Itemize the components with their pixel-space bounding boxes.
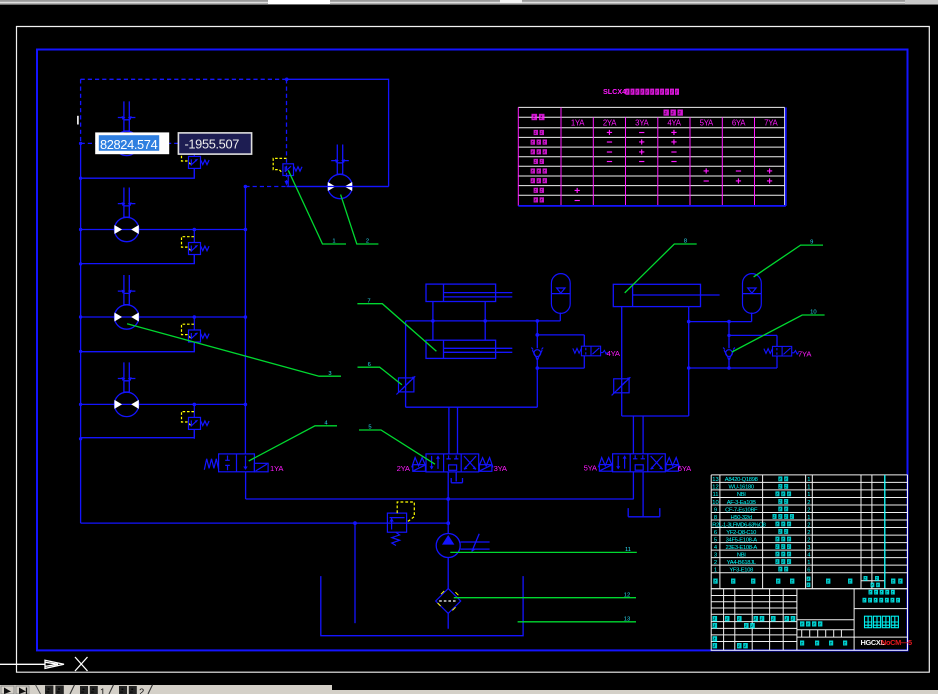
leader line item 3 [127, 324, 341, 377]
svg-text:R2L-1-3LFMD6-63%O8: R2L-1-3LFMD6-63%O8 [712, 522, 765, 528]
svg-text:1: 1 [807, 515, 810, 521]
svg-text:+: + [735, 175, 741, 187]
table header texts [532, 110, 779, 128]
filter F1 [436, 589, 461, 614]
leader line item 4 [249, 426, 337, 461]
svg-text:1: 1 [807, 477, 810, 483]
wire: V3 ports [633, 416, 643, 516]
BOM header row texts [713, 576, 902, 587]
wire: motor M4 supply line [81, 403, 246, 405]
svg-text:5: 5 [714, 537, 717, 543]
toolbar bottom strip [0, 0, 938, 5]
pilot valve V5 (7YA) [764, 346, 799, 356]
svg-text:5YA: 5YA [700, 119, 714, 128]
leader line item 9 [754, 245, 823, 277]
cylinder CY1 upper [426, 284, 512, 301]
relief valve RV4 [182, 404, 210, 438]
svg-text:SLCX4: SLCX4 [603, 87, 626, 96]
title block grid [711, 589, 907, 651]
svg-text:10: 10 [810, 310, 816, 316]
wire: supply line y321 [406, 320, 561, 322]
svg-text:1: 1 [714, 567, 717, 573]
svg-text:13: 13 [712, 477, 718, 483]
table row labels [531, 130, 547, 203]
svg-text:1: 1 [332, 239, 335, 245]
svg-text:AF-3-Ea10B: AF-3-Ea10B [727, 500, 756, 506]
tank T1 [321, 576, 523, 636]
svg-text:3: 3 [328, 371, 331, 377]
junction dot B1 bottom [536, 366, 540, 370]
motor M1 [114, 101, 138, 155]
tab labels [45, 685, 153, 694]
junction dots pump riser [353, 497, 450, 525]
motor M5 [328, 145, 352, 199]
relief valve RV3 [182, 317, 210, 351]
wire: motor M1 supply line (dashed) [81, 142, 246, 144]
svg-text:9: 9 [810, 240, 813, 246]
drain sump under V2 [451, 478, 462, 483]
svg-text:3: 3 [714, 552, 717, 558]
junction dots motor M1 row [79, 142, 247, 180]
svg-text:3YA: 3YA [494, 464, 508, 473]
svg-text:NoCM—5: NoCM—5 [881, 638, 912, 647]
motor M4 [114, 362, 138, 416]
svg-text:2: 2 [807, 530, 810, 536]
junction dots box B2 [687, 320, 731, 370]
svg-text:34F5-E108-A: 34F5-E108-A [726, 537, 758, 543]
leader line item 1 [288, 170, 346, 244]
svg-text:8: 8 [684, 239, 687, 245]
junction dots y321 [431, 319, 539, 323]
layout tab bar [0, 684, 938, 694]
svg-text:2: 2 [139, 687, 144, 694]
wire: AC1 stem [559, 313, 561, 321]
UCS icon [0, 657, 88, 671]
cylinder CY3 right [613, 284, 719, 306]
table: parts list BOM [711, 475, 907, 589]
leader line item 11 [450, 551, 637, 553]
solenoid valve V2 (2YA/3YA) 4/3 [412, 454, 493, 472]
wire: motor M3 supply line [81, 316, 246, 318]
relief valve RV2 [182, 230, 210, 264]
wire: pump riser x448 [447, 499, 449, 629]
svg-text:6: 6 [807, 567, 810, 573]
throttle valve TH2 [612, 377, 631, 395]
svg-text:1: 1 [807, 492, 810, 498]
wire: box B2 top link [689, 313, 777, 368]
svg-text:23E3-E108-A: 23E3-E108-A [725, 545, 757, 551]
svg-text:WU-16180: WU-16180 [729, 485, 754, 491]
leader line item 8 [625, 244, 697, 293]
svg-text:YF3-E108: YF3-E108 [729, 567, 753, 573]
wire: main supply line to manifold [81, 522, 449, 524]
junction dot dashed corner [244, 78, 289, 189]
wire: relief return into tank [354, 523, 356, 623]
junction dots motor M4 row [79, 403, 247, 441]
wire: motor M1 return line [81, 168, 195, 178]
svg-text:2: 2 [807, 537, 810, 543]
table plus minus marks [574, 127, 773, 207]
solenoid valve V3 (5YA/6YA) 4/3 [598, 454, 679, 472]
dynamic input box Y value [178, 133, 251, 154]
wire: suction header dashed top [81, 79, 287, 143]
svg-text:6: 6 [368, 362, 371, 368]
svg-text:6YA: 6YA [732, 119, 746, 128]
wire: A-line left drop [406, 321, 538, 407]
svg-text:11: 11 [712, 492, 718, 498]
svg-text:6YA: 6YA [678, 464, 692, 473]
leader line item 13 [518, 621, 636, 623]
relief valve RV1 [182, 143, 210, 177]
svg-text:NBI: NBI [737, 492, 746, 498]
svg-text:7YA: 7YA [798, 349, 812, 358]
svg-text:7: 7 [367, 298, 370, 304]
svg-text:2YA: 2YA [397, 464, 411, 473]
svg-text:12: 12 [712, 485, 718, 491]
svg-text:3: 3 [807, 545, 810, 551]
svg-text:4YA: 4YA [607, 349, 621, 358]
svg-text:7YA: 7YA [764, 119, 778, 128]
svg-text:-1955.507: -1955.507 [185, 137, 240, 152]
pilot valve V4 (4YA) [573, 346, 608, 356]
drawing number HGCXL NoCM-5 [861, 638, 912, 647]
crosshair cursor tick [77, 116, 79, 125]
junction dots motor M3 row [79, 315, 247, 353]
wire: left manifold vertical bus [80, 143, 82, 523]
check valve CK1 [531, 348, 543, 362]
leader line item 7 [357, 304, 436, 352]
wire: motor M2 return line [81, 255, 195, 264]
svg-text:CF-7-Es10BF: CF-7-Es10BF [725, 507, 758, 513]
svg-text:12: 12 [624, 592, 630, 598]
svg-text:11: 11 [625, 547, 631, 553]
leader line item 5 [359, 430, 435, 464]
svg-text:H50-32/d: H50-32/d [730, 515, 752, 521]
svg-text:2: 2 [366, 239, 369, 245]
wire: motor M3 return line [81, 342, 195, 352]
throttle valve TH1 [396, 376, 415, 394]
wire: return bus x245 [245, 187, 633, 500]
wire: CY3 left drop through throttle [622, 307, 689, 416]
pump P1 main [436, 534, 489, 558]
wire: pump unit 5 enclosure [287, 79, 389, 186]
svg-text:8: 8 [714, 515, 717, 521]
svg-text:+: + [766, 175, 772, 187]
motor M3 [114, 275, 138, 329]
svg-text:2: 2 [807, 507, 810, 513]
svg-text:2: 2 [714, 560, 717, 566]
wire: dashed pilot link to pump unit 5 [245, 79, 286, 186]
leader line item 6 [358, 367, 402, 385]
svg-text:−: − [639, 156, 645, 168]
svg-text:9: 9 [714, 507, 717, 513]
svg-text:6: 6 [714, 530, 717, 536]
leader line item 10 [732, 315, 825, 352]
solenoid valve V1 (1YA) 2/2 [204, 454, 268, 472]
junction dots motor M2 row [79, 228, 247, 266]
wire: V2 ports [448, 407, 457, 499]
wire: motor M5 supply [287, 186, 389, 188]
title block texts [713, 590, 901, 649]
drain sump under V3 [628, 508, 660, 517]
relief valve RV5 [273, 158, 302, 186]
svg-text:1YA: 1YA [571, 119, 585, 128]
wire: check box B1 [537, 321, 584, 407]
svg-text:5: 5 [368, 425, 371, 431]
wire: cylinder frame verticals [433, 302, 485, 341]
wire: CY3 right drop [688, 307, 690, 416]
svg-text:82824.574: 82824.574 [100, 137, 158, 152]
motor M2 [114, 188, 138, 242]
svg-text:13: 13 [624, 616, 630, 622]
check valve CK2 [723, 348, 735, 362]
svg-text:−: − [574, 195, 580, 207]
wire: motor M2 supply line [81, 229, 246, 231]
svg-text:10: 10 [712, 500, 718, 506]
svg-text:2: 2 [807, 500, 810, 506]
leader line item 12 [454, 597, 636, 599]
svg-text:2: 2 [807, 522, 810, 528]
relief valve RV6 main [387, 502, 414, 546]
table title SLCX4 [603, 87, 679, 96]
svg-text:NBI: NBI [737, 552, 746, 558]
svg-text:YA4-B618JL: YA4-B618JL [727, 560, 757, 566]
svg-text:1: 1 [100, 687, 105, 694]
table: solenoid action chart [518, 107, 786, 205]
svg-text:−: − [606, 156, 612, 168]
dynamic input box X value [95, 132, 169, 154]
svg-text:1: 1 [807, 485, 810, 491]
cyan revision line [884, 475, 886, 589]
accumulator AC1 [551, 274, 570, 314]
svg-text:A8420-Q1898: A8420-Q1898 [725, 477, 758, 483]
wire: motor M4 return line [81, 429, 195, 437]
accumulator AC2 [743, 274, 762, 314]
BOM row texts [712, 476, 811, 573]
svg-text:−: − [703, 175, 709, 187]
svg-text:1: 1 [807, 560, 810, 566]
svg-text:YF2-Q8-C10: YF2-Q8-C10 [726, 530, 756, 536]
leader line item 2 [341, 195, 379, 244]
cylinder CY2 lower [426, 340, 512, 358]
svg-text:−: − [671, 156, 677, 168]
svg-text:5YA: 5YA [584, 464, 598, 473]
svg-text:1YA: 1YA [270, 464, 284, 473]
